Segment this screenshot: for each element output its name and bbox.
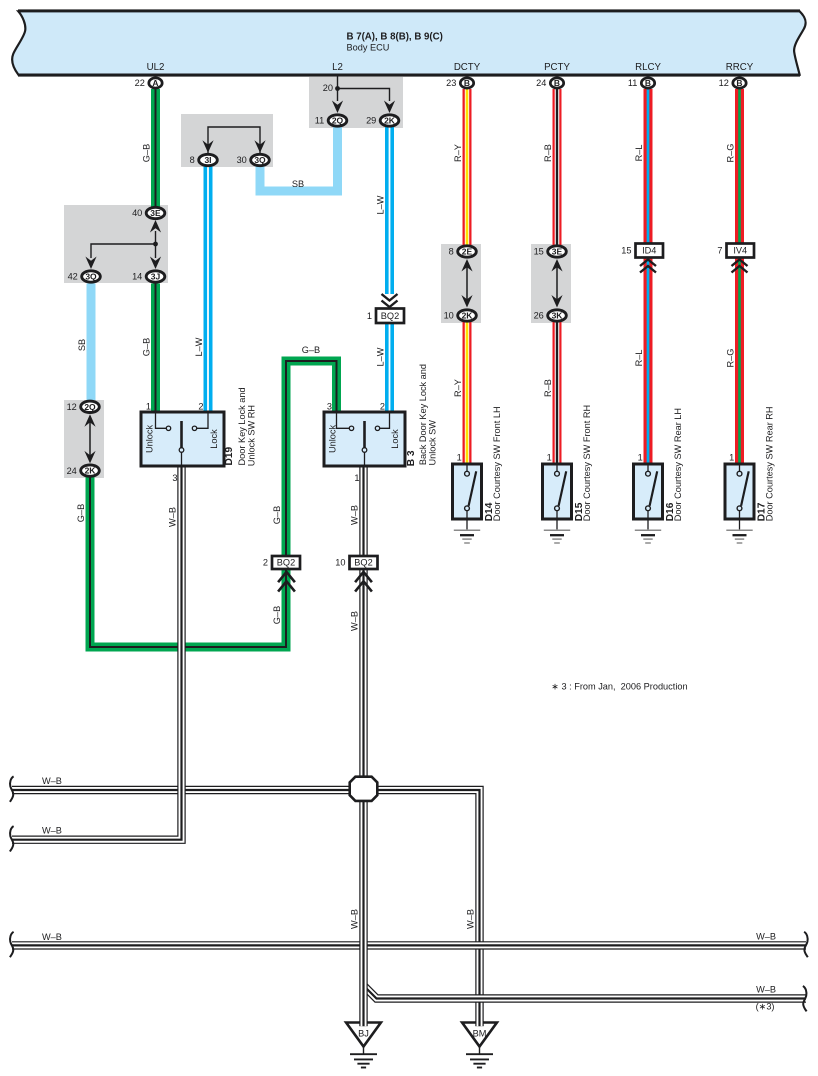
- net label UL2: [147, 62, 165, 73]
- svg-text:10: 10: [444, 311, 454, 321]
- chevron into ID4: [640, 260, 656, 273]
- svg-text:10: 10: [335, 558, 345, 568]
- L2 pin20 branch with arrows: [323, 76, 395, 113]
- svg-text:R–L: R–L: [634, 145, 644, 162]
- svg-text:G–B: G–B: [302, 345, 320, 355]
- label (*3) note H4: [756, 1002, 775, 1012]
- svg-text:24: 24: [67, 466, 77, 476]
- svg-text:BM: BM: [473, 1029, 487, 1039]
- svg-text:1: 1: [146, 402, 151, 412]
- wire label R-G lower: [726, 349, 736, 368]
- label W-B H3 left: [42, 932, 62, 942]
- net label RRCY: [726, 62, 754, 73]
- svg-text:SB: SB: [292, 179, 304, 189]
- connector 3K (26): [534, 310, 567, 321]
- connector 3E (40): [132, 207, 165, 218]
- svg-text:8: 8: [190, 155, 195, 165]
- svg-text:2: 2: [380, 402, 385, 412]
- wire label W-B above BJ: [350, 909, 360, 929]
- svg-text:29: 29: [366, 116, 376, 126]
- wire label SB horizontal: [292, 179, 304, 189]
- wire L-W 2K to BQ2 pin1: [385, 127, 394, 294]
- svg-text:∗ 3 : From Jan, 2006 Producti: ∗ 3 : From Jan, 2006 Production: [551, 682, 687, 692]
- svg-text:W–B: W–B: [42, 776, 62, 786]
- switch D17 Door Courtesy SW Rear RH: [725, 406, 774, 543]
- svg-text:3Q: 3Q: [85, 272, 97, 282]
- svg-text:30: 30: [237, 155, 247, 165]
- torn end H2: [10, 826, 14, 851]
- svg-text:3E: 3E: [150, 208, 161, 218]
- svg-text:R–B: R–B: [543, 379, 553, 397]
- svg-text:G–B: G–B: [272, 506, 282, 524]
- svg-text:L2: L2: [332, 62, 343, 73]
- wire W-B horizontal H1 left: [12, 786, 351, 794]
- svg-text:42: 42: [68, 272, 78, 282]
- gray shield box 2E/2K (DCTY): [441, 244, 481, 323]
- svg-text:12: 12: [67, 402, 77, 412]
- svg-text:R–Y: R–Y: [453, 144, 463, 162]
- net label RLCY: [635, 62, 661, 73]
- wire label G-B at BQ2-2: [272, 506, 282, 524]
- svg-text:(∗3): (∗3): [756, 1002, 775, 1012]
- svg-text:2Q: 2Q: [332, 116, 344, 126]
- svg-text:3Q: 3Q: [254, 155, 266, 165]
- svg-text:W–B: W–B: [756, 984, 776, 994]
- wire label R-Y lower: [453, 379, 463, 397]
- net label PCTY: [544, 62, 570, 73]
- svg-text:1: 1: [367, 311, 372, 321]
- svg-text:Door Courtesy SW Rear LH: Door Courtesy SW Rear LH: [673, 408, 683, 521]
- svg-text:3I: 3I: [204, 155, 211, 165]
- svg-text:DCTY: DCTY: [454, 62, 481, 73]
- svg-text:W–B: W–B: [350, 611, 360, 631]
- svg-text:1: 1: [729, 453, 734, 463]
- svg-text:15: 15: [621, 246, 631, 256]
- svg-text:W–B: W–B: [756, 931, 776, 941]
- label W-B H1: [42, 776, 62, 786]
- wire R-L RLCY to ID4: [644, 89, 653, 244]
- svg-text:8: 8: [449, 247, 454, 257]
- pin 12 (B) RRCY: [719, 78, 747, 88]
- svg-text:2E: 2E: [462, 247, 473, 257]
- wire label W-B above BM: [466, 909, 476, 929]
- torn end H3 left: [10, 932, 14, 957]
- wire R-Y 2K to D14: [463, 320, 472, 465]
- switch D14 Door Courtesy SW Front LH: [453, 406, 502, 543]
- connector box BQ2 pin10: [335, 556, 377, 569]
- ground BM: [462, 1021, 497, 1068]
- wire label W-B at D19: [168, 507, 178, 527]
- pin 11 (B) RLCY: [628, 78, 655, 88]
- svg-text:2Q: 2Q: [84, 402, 96, 412]
- connector 2K (24): [67, 465, 100, 476]
- svg-text:Body ECU: Body ECU: [347, 43, 390, 53]
- wire W-B BQ2-10 to junction: [359, 570, 367, 777]
- wire label L-W lower: [376, 347, 386, 366]
- svg-text:B: B: [554, 78, 560, 88]
- svg-text:Door Courtesy SW Front RH: Door Courtesy SW Front RH: [582, 405, 592, 521]
- svg-text:Door Courtesy SW Rear RH: Door Courtesy SW Rear RH: [764, 406, 774, 521]
- wire label G-B upper: [142, 144, 152, 162]
- switch B3 Back Door Key Lock and Unlock SW: [324, 364, 438, 483]
- wire label R-L lower: [634, 350, 644, 367]
- gray shield box 3E/3K (PCTY): [531, 244, 571, 323]
- gray shield box 3E/3Q/3J: [64, 205, 168, 283]
- 2Q/2K double arrow: [84, 414, 95, 463]
- svg-text:G–B: G–B: [272, 606, 282, 624]
- svg-text:3E: 3E: [552, 247, 563, 257]
- chevron into BQ2-1: [382, 294, 398, 307]
- chevron into IV4: [732, 260, 748, 273]
- svg-text:L–W: L–W: [376, 195, 386, 214]
- svg-text:7: 7: [717, 246, 722, 256]
- wire SB 3Q to 2Q left: [87, 284, 96, 401]
- torn end H4 right: [803, 986, 807, 1011]
- svg-text:BJ: BJ: [358, 1029, 369, 1039]
- svg-text:3: 3: [327, 402, 332, 412]
- junction octagon: [350, 777, 378, 801]
- wire R-B 3K to D15: [553, 320, 562, 465]
- connector 3J (14): [132, 271, 165, 282]
- svg-text:W–B: W–B: [350, 909, 360, 929]
- svg-text:3J: 3J: [151, 272, 161, 282]
- torn end H3 right: [804, 932, 808, 957]
- wire R-G IV4 to D17: [735, 258, 744, 466]
- net label DCTY: [454, 62, 481, 73]
- svg-text:A: A: [152, 78, 158, 88]
- svg-text:Lock: Lock: [209, 429, 219, 449]
- label W-B H2: [42, 826, 62, 836]
- svg-text:G–B: G–B: [142, 144, 152, 162]
- svg-text:BQ2: BQ2: [354, 558, 372, 568]
- svg-text:Unlock SW: Unlock SW: [428, 420, 438, 466]
- svg-text:D19: D19: [224, 446, 235, 465]
- svg-text:2: 2: [198, 402, 203, 412]
- svg-text:3K: 3K: [552, 311, 564, 321]
- svg-text:BQ2: BQ2: [277, 558, 295, 568]
- switch D19 Door Key Lock and Unlock SW RH: [141, 387, 256, 483]
- wire W-B horizontal H3 full width: [12, 941, 806, 949]
- svg-text:G–B: G–B: [142, 338, 152, 356]
- svg-text:B: B: [736, 78, 742, 88]
- label W-B H3 right: [756, 931, 776, 941]
- svg-text:SB: SB: [77, 339, 87, 351]
- connector 2E (8): [449, 246, 477, 257]
- svg-text:Lock: Lock: [390, 429, 400, 449]
- connector box IV4 pin7: [717, 244, 754, 258]
- wire L-W 3I to D19 pin2: [204, 166, 213, 413]
- wire L-W BQ2-1 to B3 pin2: [385, 322, 394, 413]
- svg-text:L–W: L–W: [376, 347, 386, 366]
- svg-text:RLCY: RLCY: [635, 62, 661, 73]
- svg-text:W–B: W–B: [350, 505, 360, 525]
- svg-text:22: 22: [135, 78, 145, 88]
- wire label G-B horizontal: [302, 345, 320, 355]
- svg-text:2K: 2K: [462, 311, 474, 321]
- svg-text:R–B: R–B: [543, 144, 553, 162]
- svg-text:B 7(A), B 8(B), B 9(C): B 7(A), B 8(B), B 9(C): [347, 32, 443, 43]
- svg-text:Unlock SW RH: Unlock SW RH: [246, 405, 256, 466]
- svg-text:2K: 2K: [85, 466, 97, 476]
- banner title: [347, 32, 443, 53]
- wire W-B junction to BJ: [359, 802, 367, 1022]
- svg-text:PCTY: PCTY: [544, 62, 570, 73]
- wire R-Y DCTY to 2E: [463, 89, 472, 246]
- wire W-B B3 pin1 to BQ2-10: [359, 466, 367, 557]
- net label L2: [332, 62, 343, 73]
- svg-text:W–B: W–B: [168, 507, 178, 527]
- 3E branch arrows: [85, 220, 161, 269]
- svg-text:BQ2: BQ2: [381, 311, 399, 321]
- wire G-B 3J to D19 pin1: [151, 284, 160, 414]
- svg-text:Unlock: Unlock: [328, 425, 338, 453]
- 3I/3Q bracket with arrows: [202, 127, 265, 153]
- svg-text:14: 14: [132, 272, 142, 282]
- wire label G-B mid: [142, 338, 152, 356]
- gray shield box L2 (2Q/2K): [309, 77, 403, 128]
- svg-text:2: 2: [263, 558, 268, 568]
- connector 2Q (11): [315, 115, 347, 126]
- wire label R-G upper: [726, 144, 736, 163]
- wire R-L ID4 to D16: [644, 258, 653, 466]
- switch D16 Door Courtesy SW Rear LH: [634, 408, 683, 543]
- ground BJ: [346, 1021, 381, 1068]
- svg-text:15: 15: [534, 247, 544, 257]
- svg-text:23: 23: [446, 78, 456, 88]
- connector box ID4 pin15: [621, 244, 663, 258]
- svg-text:Unlock: Unlock: [145, 425, 155, 453]
- wire label R-B upper: [543, 144, 553, 162]
- svg-text:12: 12: [719, 78, 729, 88]
- svg-text:11: 11: [628, 78, 638, 88]
- wire label R-Y upper: [453, 144, 463, 162]
- svg-text:W–B: W–B: [42, 826, 62, 836]
- pin 22 (A) UL2: [135, 78, 163, 88]
- svg-text:3: 3: [172, 473, 177, 483]
- wire W-B D19 pin3 down and left: [12, 466, 182, 840]
- svg-text:1: 1: [638, 453, 643, 463]
- svg-text:R–L: R–L: [634, 350, 644, 367]
- svg-text:B 3: B 3: [406, 450, 417, 466]
- svg-text:40: 40: [132, 208, 142, 218]
- gray shield box 2Q/2K left: [64, 400, 104, 478]
- wire label L-W left: [194, 337, 204, 356]
- chevron into BQ2-2: [278, 572, 295, 592]
- gray shield box 3I/3Q: [181, 114, 273, 167]
- svg-text:1: 1: [354, 473, 359, 483]
- wire G-B loop 2K to BQ2 pin2: [90, 477, 286, 647]
- connector 3Q (30): [237, 154, 270, 165]
- connector box BQ2 pin2: [263, 556, 300, 569]
- connector 3I (8): [190, 154, 218, 165]
- svg-text:B: B: [464, 78, 470, 88]
- Body ECU banner: [12, 9, 806, 76]
- svg-text:G–B: G–B: [76, 504, 86, 522]
- label W-B H4 right: [756, 984, 776, 994]
- chevron into BQ2-10: [355, 572, 372, 592]
- svg-text:1: 1: [457, 453, 462, 463]
- torn end H1: [10, 776, 14, 801]
- wire label G-B lower-left: [76, 504, 86, 522]
- wire label W-B below BQ2-10: [350, 611, 360, 631]
- wire G-B loop B3 pin3 to BQ2-2 box: [286, 361, 337, 557]
- connector 2K (29): [366, 115, 399, 126]
- connector 2K (10): [444, 310, 477, 321]
- svg-text:2K: 2K: [384, 116, 396, 126]
- wire label L-W upper: [376, 195, 386, 214]
- svg-text:RRCY: RRCY: [726, 62, 754, 73]
- 3E/3K double arrow: [551, 259, 562, 308]
- wire W-B H1 right + down to BM: [377, 790, 480, 1022]
- note *3: [551, 682, 687, 692]
- svg-text:24: 24: [536, 78, 546, 88]
- connector 2Q (12): [67, 401, 100, 412]
- connector box BQ2 pin1: [367, 309, 404, 324]
- wire label W-B at B3: [350, 505, 360, 525]
- connector 3E (15): [534, 246, 567, 257]
- svg-text:L–W: L–W: [194, 337, 204, 356]
- svg-text:Door Courtesy SW Front LH: Door Courtesy SW Front LH: [492, 406, 502, 521]
- wire label G-B below BQ2-2: [272, 606, 282, 624]
- svg-text:R–G: R–G: [726, 349, 736, 368]
- pin 24 (B) PCTY: [536, 78, 564, 88]
- svg-text:B: B: [645, 78, 651, 88]
- wire label R-L upper: [634, 145, 644, 162]
- wire label SB left: [77, 339, 87, 351]
- svg-text:11: 11: [315, 116, 325, 126]
- wire SB U-link 3Q to 2Q: [260, 127, 338, 191]
- svg-text:R–G: R–G: [726, 144, 736, 163]
- svg-text:20: 20: [323, 83, 333, 93]
- svg-text:26: 26: [534, 311, 544, 321]
- wire label R-B lower: [543, 379, 553, 397]
- pin 23 (B) DCTY: [446, 78, 474, 88]
- svg-text:IV4: IV4: [733, 246, 747, 256]
- svg-text:R–Y: R–Y: [453, 379, 463, 397]
- connector 3Q (42): [68, 271, 101, 282]
- wire R-G RRCY to IV4: [735, 89, 744, 244]
- svg-text:W–B: W–B: [42, 932, 62, 942]
- svg-text:W–B: W–B: [466, 909, 476, 929]
- svg-text:UL2: UL2: [147, 62, 165, 73]
- svg-text:ID4: ID4: [642, 246, 656, 256]
- switch D15 Door Courtesy SW Front RH: [543, 405, 592, 543]
- wire R-B PCTY to 3E: [553, 89, 562, 246]
- 2E/2K double arrow: [461, 259, 472, 308]
- wire G-B UL2 pin22 to 3E: [151, 89, 160, 207]
- svg-text:1: 1: [547, 453, 552, 463]
- wire W-B horizontal H4 jog to right: [364, 986, 807, 999]
